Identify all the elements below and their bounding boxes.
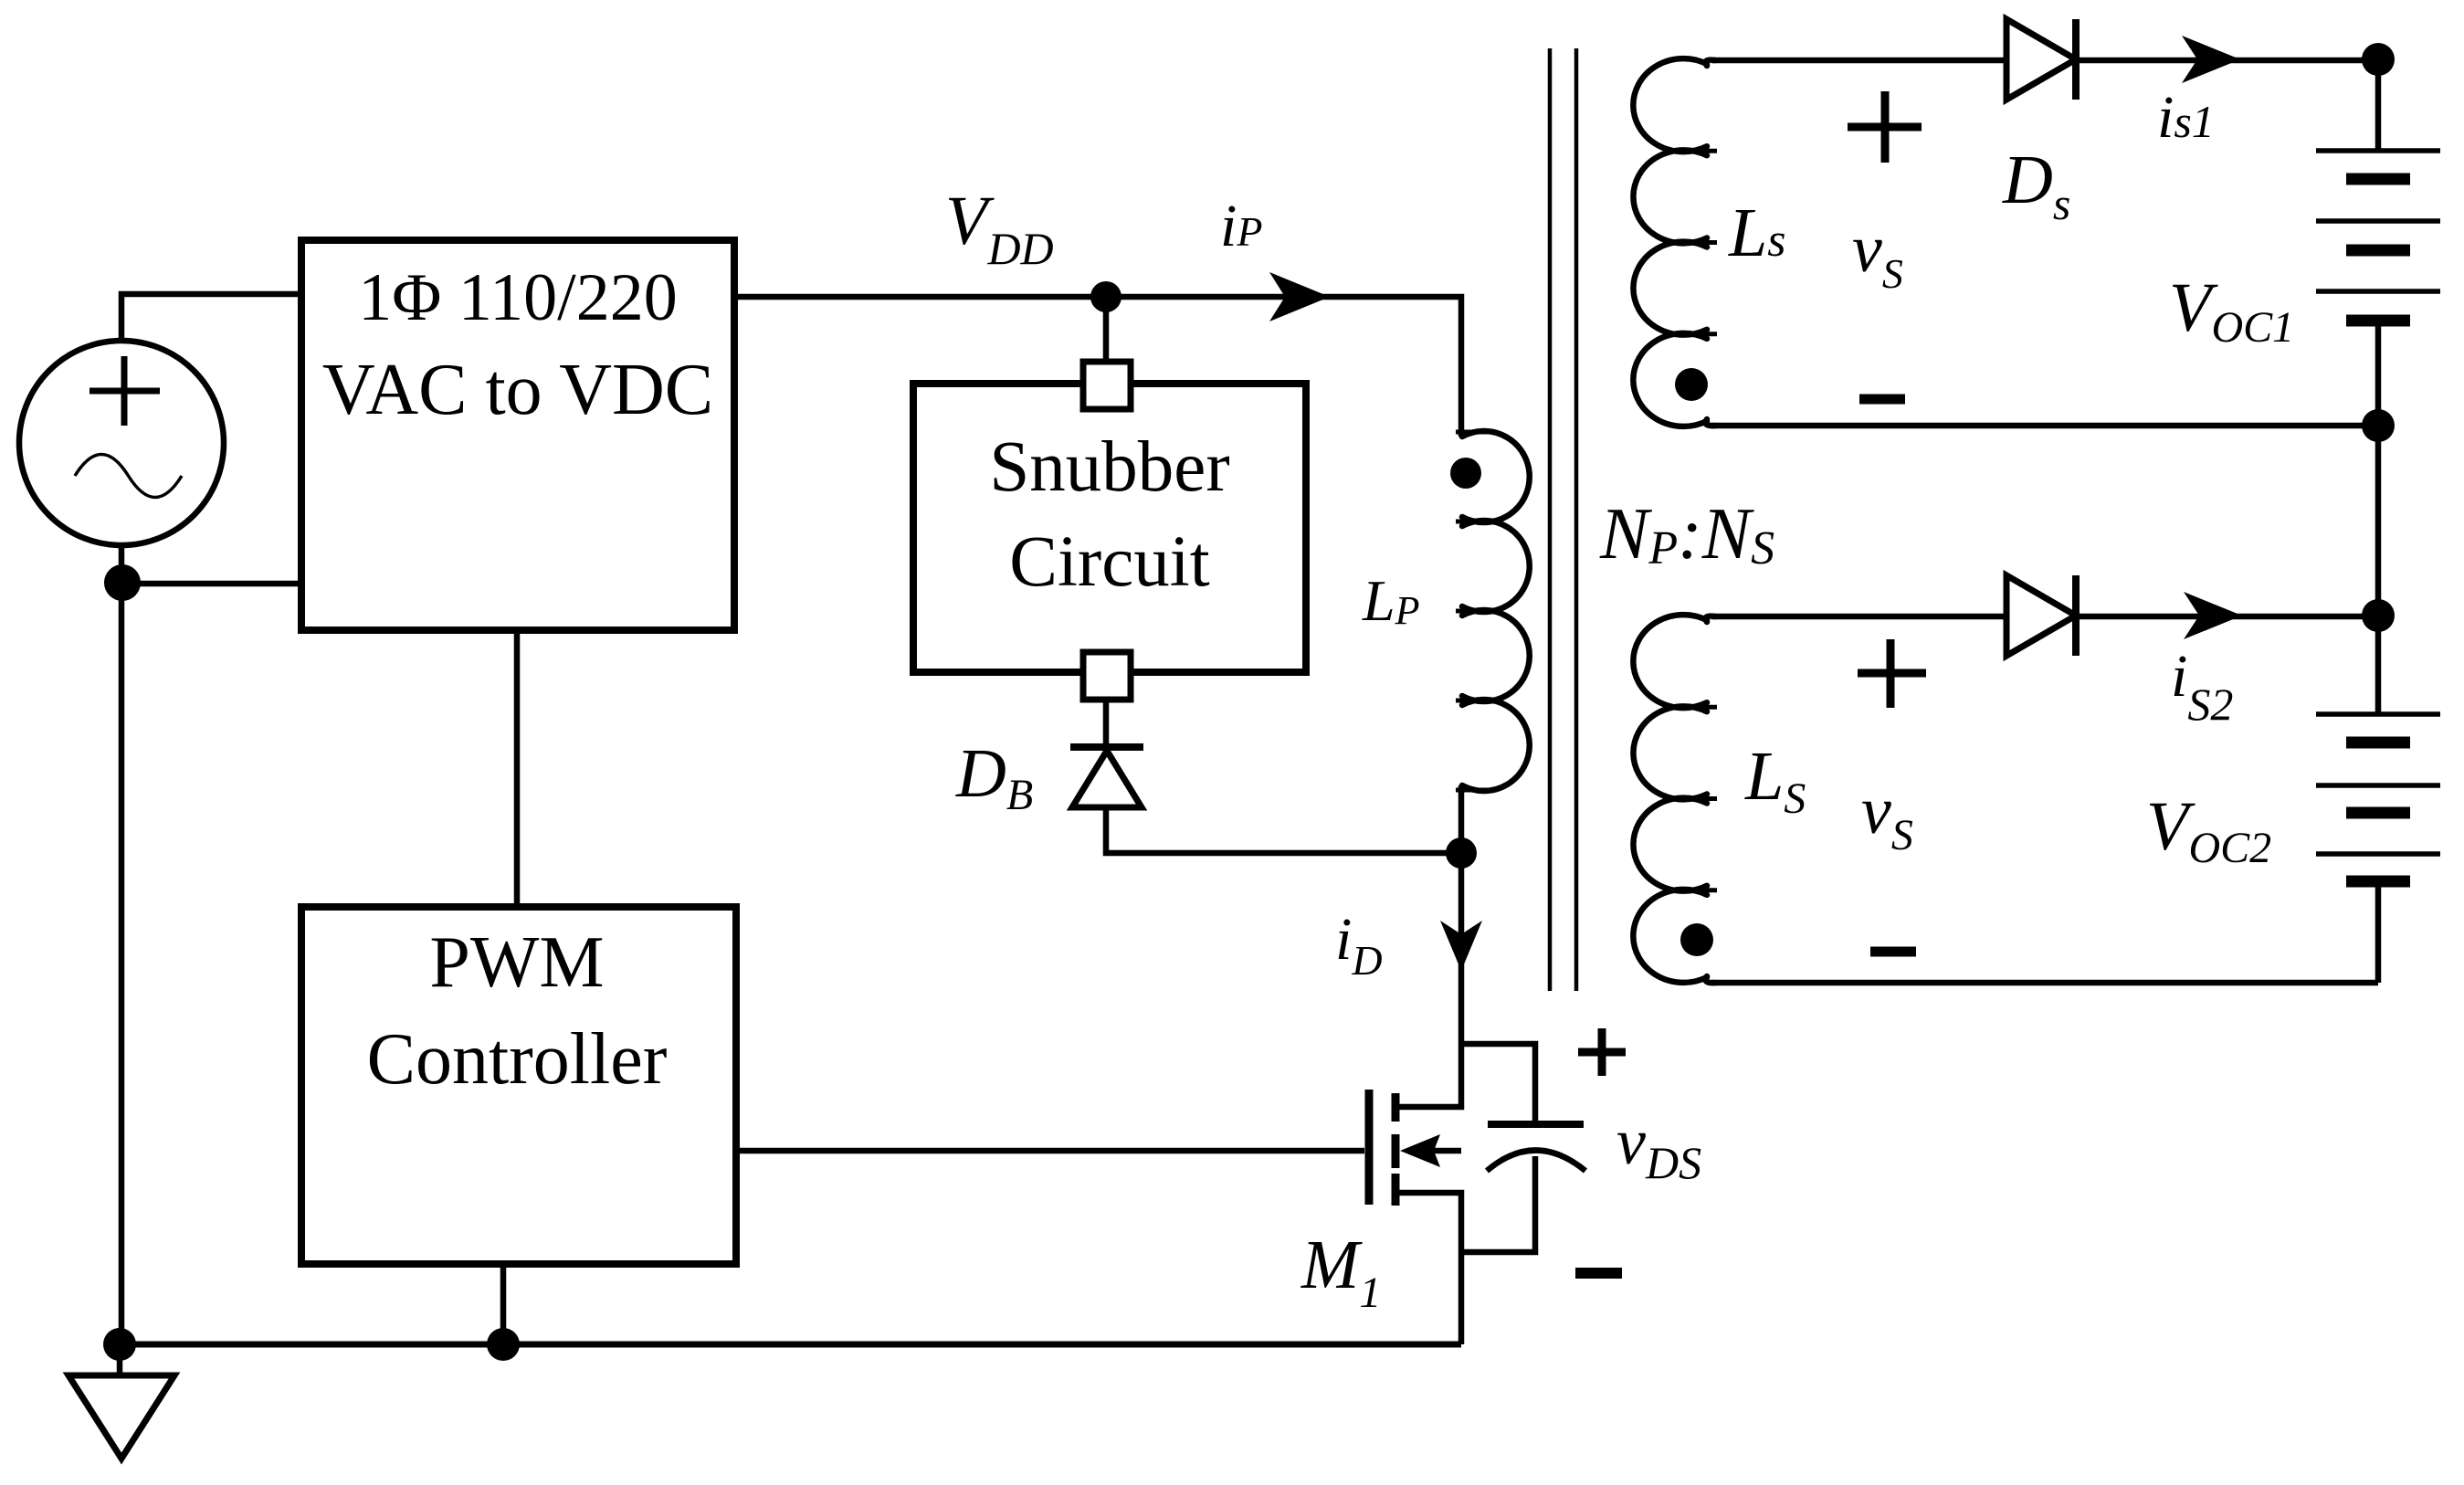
transformer core lines xyxy=(1550,48,1576,991)
node primary bottom junction xyxy=(1446,837,1477,869)
wire drain: node to MOSFET xyxy=(1395,853,1461,1107)
node secondary2 top junction xyxy=(2362,599,2395,632)
wire DB to primary bottom node xyxy=(1106,807,1461,853)
polarity dot LS2 xyxy=(1680,923,1713,956)
diode secondary 2 xyxy=(2006,575,2076,656)
wire node to VAC/VDC box lower input xyxy=(121,581,301,587)
wire capacitor bracket top xyxy=(1461,1044,1535,1124)
battery VOC2 xyxy=(2316,714,2440,881)
battery VOC1 xyxy=(2316,151,2440,321)
wire battery1 bottom to mid node xyxy=(2375,321,2382,616)
wire capacitor bracket bottom xyxy=(1461,1156,1535,1252)
snubber bottom terminal square xyxy=(1083,652,1131,700)
AC source sine wave xyxy=(75,455,182,498)
MOSFET body arrow xyxy=(1400,1134,1440,1167)
arrow iD xyxy=(1440,921,1482,971)
svg-text:Circuit: Circuit xyxy=(1009,522,1209,602)
wire AC bottom to node xyxy=(119,545,125,583)
arrow iP xyxy=(1269,272,1330,321)
wire secondary2 top to node xyxy=(1711,614,2378,620)
wire battery2 bottom xyxy=(2375,881,2382,983)
wire VDD: box right to transformer corner xyxy=(734,297,1461,432)
wire gate: PWM to MOSFET xyxy=(736,1148,1364,1154)
minus sign vS2 xyxy=(1870,947,1916,957)
MOSFET M1 gate bar xyxy=(1365,1090,1374,1205)
minus sign vDS xyxy=(1575,1268,1622,1279)
capacitor curved plate xyxy=(1487,1151,1585,1172)
wire secondary2 bottom xyxy=(1711,980,2378,986)
node ground left junction xyxy=(103,1328,136,1361)
arrow iS2 xyxy=(2184,592,2242,639)
plus sign vS2 xyxy=(1858,639,1926,708)
node AC bottom junction xyxy=(104,564,141,601)
inductor LS secondary winding 2 xyxy=(1633,615,1707,708)
svg-text:1Φ 110/220: 1Φ 110/220 xyxy=(358,260,677,335)
snubber top terminal square xyxy=(1083,362,1131,409)
wire MOSFET body to source xyxy=(1412,1148,1461,1154)
VAC/VDC converter box xyxy=(301,240,734,630)
node PWM ground junction xyxy=(487,1328,520,1361)
wire secondary1 top to node xyxy=(1711,58,2378,64)
node secondary mid junction xyxy=(2362,409,2395,442)
snubber circuit box xyxy=(913,384,1306,672)
MOSFET M1 channel segments xyxy=(1392,1093,1400,1206)
svg-text:NP:NS: NP:NS xyxy=(1599,494,1774,574)
AC source V1 circle xyxy=(19,341,224,545)
polarity dot LS1 xyxy=(1675,368,1708,401)
wire battery1 top xyxy=(2375,59,2382,151)
node secondary1 top junction xyxy=(2362,43,2395,76)
wire AC top to VAC/VDC box xyxy=(121,294,301,341)
wire box1 bottom to PWM top xyxy=(514,630,521,907)
wire battery2 top xyxy=(2375,616,2382,714)
node VDD junction xyxy=(1090,281,1121,312)
inductor LP primary winding xyxy=(1458,432,1465,853)
wire node down left rail xyxy=(119,583,125,1344)
plus sign vS1 xyxy=(1848,91,1922,163)
diode DB xyxy=(1072,751,1142,807)
polarity dot LP xyxy=(1450,458,1481,489)
svg-text:VAC to VDC: VAC to VDC xyxy=(322,350,713,430)
PWM controller box xyxy=(301,907,736,1264)
capacitor top plate xyxy=(1488,1121,1584,1128)
wire PWM bottom down xyxy=(500,1264,507,1344)
ground symbol xyxy=(68,1375,174,1459)
wire ground stem xyxy=(117,1344,123,1375)
diode DS secondary 1 xyxy=(2006,19,2076,100)
svg-text:Controller: Controller xyxy=(367,1019,668,1100)
wire secondary1 bottom xyxy=(1711,423,2378,429)
minus sign vS1 xyxy=(1859,395,1905,405)
wire ground bus xyxy=(120,1342,1461,1348)
AC source plus sign xyxy=(90,356,160,426)
plus sign vDS xyxy=(1578,1028,1626,1076)
wire source contact down to ground bus xyxy=(1395,1193,1461,1344)
arrow iS1 xyxy=(2182,36,2240,83)
wire VDD node down to snubber xyxy=(1103,297,1110,363)
svg-text:PWM: PWM xyxy=(429,922,604,1003)
svg-text:Snubber: Snubber xyxy=(989,427,1229,507)
wire snubber square to diode DB xyxy=(1103,700,1110,747)
inductor LS secondary winding 1 xyxy=(1633,58,1707,152)
